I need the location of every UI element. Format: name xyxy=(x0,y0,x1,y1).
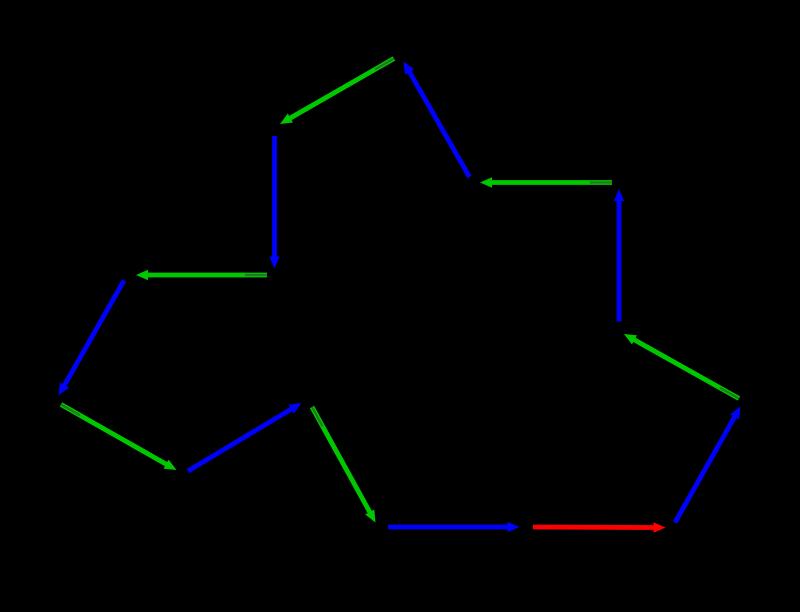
green arrow M: (612,182) to (480,182) xyxy=(480,177,612,187)
blue arrow L: (619,322) to (619,189) xyxy=(614,189,624,322)
green arrow G: (312,407) to (376,522) xyxy=(310,406,376,523)
blue arrow F: (188,471) to (302,403) xyxy=(187,403,302,473)
blue arrow D: (124,280) to (58,396) xyxy=(59,279,127,395)
green arrow A: (394,58) to (280,124) xyxy=(280,56,395,124)
green arrow E: (61,404) to (176,470) xyxy=(60,402,177,470)
green arrow C: (267,275) to (136,275) xyxy=(136,270,267,280)
red arrow I: (533,527) to (666,528) xyxy=(533,522,666,532)
blue arrow B: (274,136) to (274,268) xyxy=(269,136,279,269)
green arrow K: (739,398) to (624,334) xyxy=(624,334,740,401)
blue arrow N: (470,177) to (404,62) xyxy=(404,62,472,179)
blue arrow J: (675,522) to (740,406) xyxy=(673,407,741,524)
blue arrow H: (388,527) to (520,527) xyxy=(388,522,520,532)
